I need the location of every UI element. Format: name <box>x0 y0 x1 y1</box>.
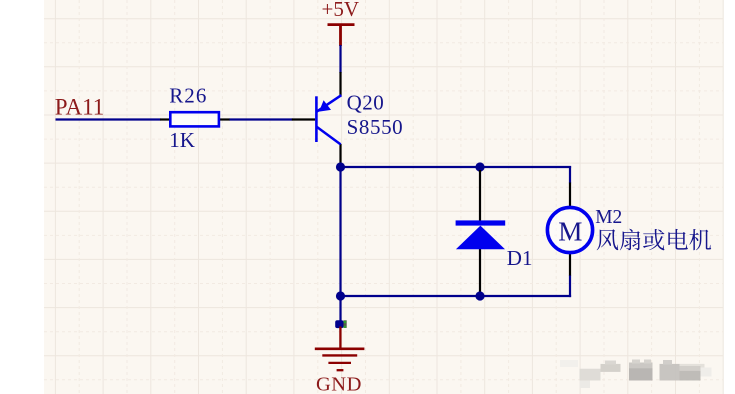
junction: collector node bottom <box>336 291 345 300</box>
wire: PA11 net to R26 <box>56 118 161 120</box>
resistor R26 <box>160 112 230 126</box>
power symbol +5V <box>328 25 355 46</box>
ground symbol GND <box>315 327 365 371</box>
svg-text:1K: 1K <box>169 128 195 152</box>
label 风扇或电机 (fan or motor) <box>597 229 711 251</box>
motor M2 <box>547 183 592 277</box>
svg-text:D1: D1 <box>507 246 533 270</box>
wire: Q20 collector node A horizontal <box>339 166 571 168</box>
wire: node to ground <box>339 296 341 322</box>
wire: node A to motor top <box>569 166 571 183</box>
wire: collector vertical down <box>339 166 341 297</box>
designator Q20 <box>347 91 385 115</box>
junction: D1 cathode node <box>475 162 484 171</box>
designator R26 <box>169 84 207 108</box>
designator D1 <box>507 246 533 270</box>
svg-text:S8550: S8550 <box>347 115 404 139</box>
wire: bottom return horizontal <box>339 295 571 297</box>
designator M2 <box>595 207 622 228</box>
svg-text:GND: GND <box>316 374 362 394</box>
svg-text:M2: M2 <box>595 207 622 228</box>
value 1K <box>169 128 195 152</box>
junction: collector node top <box>336 162 345 171</box>
wire: motor bottom stub <box>569 276 571 298</box>
svg-text:Q20: Q20 <box>347 91 385 115</box>
svg-text:+5V: +5V <box>322 0 360 21</box>
label GND <box>316 374 362 394</box>
junction: D1 anode node <box>475 291 484 300</box>
wire: +5V to Q20 emitter <box>339 45 341 73</box>
net label PA11 <box>55 95 104 120</box>
diode D1 <box>456 170 506 293</box>
svg-text:M: M <box>558 216 582 246</box>
node: ground attachment point <box>335 320 346 328</box>
svg-text:PA11: PA11 <box>55 95 104 120</box>
value S8550 <box>347 115 404 139</box>
label +5V <box>322 0 360 21</box>
wire: R26 to Q20 base <box>230 118 293 120</box>
svg-text:R26: R26 <box>169 84 207 108</box>
transistor Q20 (PNP) <box>292 72 342 167</box>
